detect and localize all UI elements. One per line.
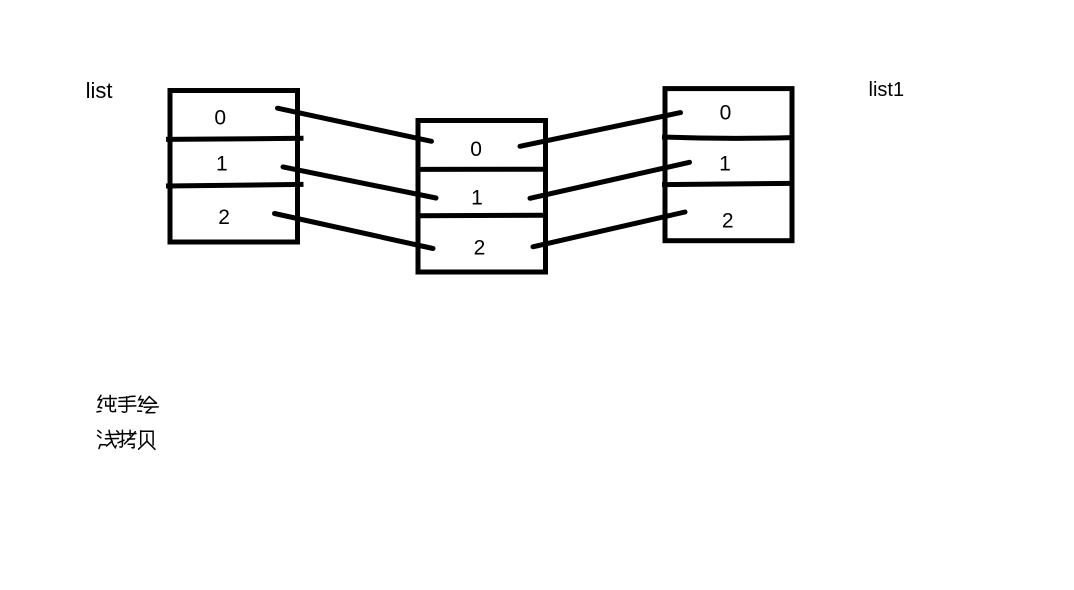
right table separator 2 xyxy=(662,183,791,184)
pointer line object 2 to list1[2] xyxy=(533,212,685,247)
right table separator 1 xyxy=(662,137,791,138)
annotation char chun (纯) xyxy=(97,395,116,412)
pointer line list[1] to object 1 xyxy=(283,167,436,198)
middle table separator 1 xyxy=(416,167,546,172)
annotation char kao (拷) xyxy=(117,430,136,448)
svg-text:list: list xyxy=(86,78,113,103)
middle table separator 2 xyxy=(416,213,546,219)
annotation char bei (贝) xyxy=(139,431,155,450)
svg-text:0: 0 xyxy=(720,102,732,125)
annotation char hui (绘) xyxy=(138,396,159,413)
svg-text:1: 1 xyxy=(719,152,731,175)
annotation char shou (手) xyxy=(119,396,136,412)
svg-text:0: 0 xyxy=(470,138,482,161)
pointer line list[2] to object 2 xyxy=(275,214,434,249)
annotation char qian (浅) xyxy=(98,430,120,448)
left table separator 1 xyxy=(166,138,304,139)
pointer line object 0 to list1[0] xyxy=(520,113,681,147)
svg-text:list1: list1 xyxy=(869,79,905,101)
svg-text:2: 2 xyxy=(474,237,486,260)
svg-text:1: 1 xyxy=(471,186,483,209)
svg-text:1: 1 xyxy=(216,152,228,175)
right table outer box xyxy=(665,89,792,241)
pointer line list[0] to object 0 xyxy=(278,108,432,141)
middle table outer box xyxy=(418,121,546,273)
pointer line object 1 to list1[1] xyxy=(530,162,690,198)
left table outer box xyxy=(170,91,298,243)
svg-text:0: 0 xyxy=(214,106,226,129)
svg-text:2: 2 xyxy=(218,206,230,229)
left table separator 2 xyxy=(166,184,304,186)
svg-text:2: 2 xyxy=(722,209,734,232)
